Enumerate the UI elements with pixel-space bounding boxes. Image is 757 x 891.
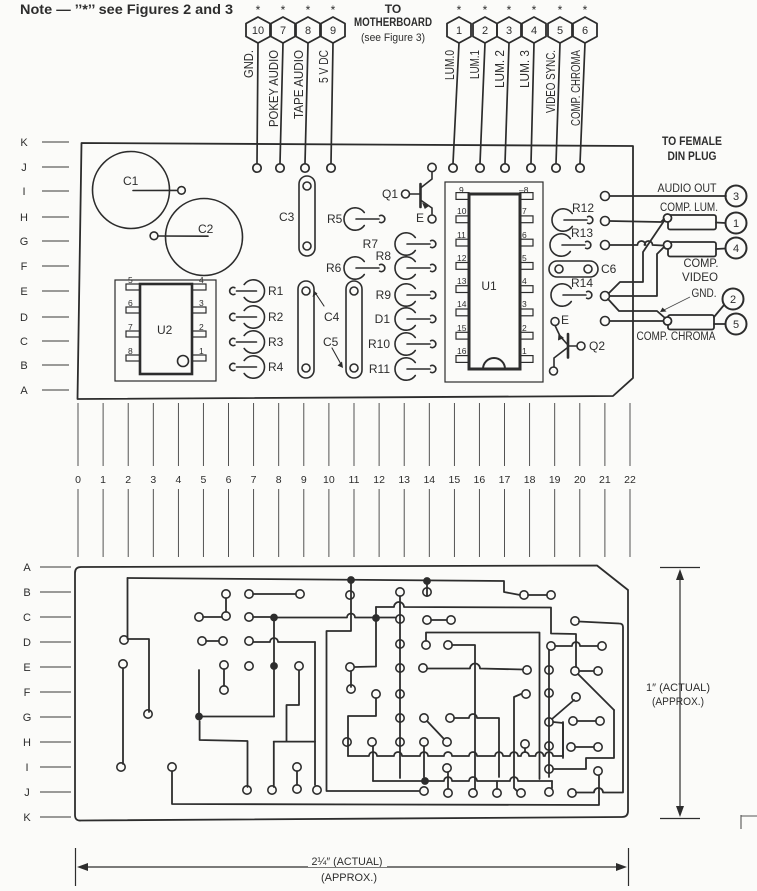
svg-text:R3: R3 [268, 335, 284, 349]
svg-text:9: 9 [459, 185, 464, 195]
svg-text:COMP. LUM.: COMP. LUM. [660, 202, 718, 214]
svg-text:H: H [23, 737, 31, 749]
svg-text:1: 1 [456, 25, 462, 37]
svg-text:B: B [20, 360, 27, 372]
svg-text:4: 4 [733, 243, 739, 255]
svg-text:K: K [23, 812, 31, 824]
svg-text:D1: D1 [375, 312, 391, 326]
svg-text:R13: R13 [571, 226, 593, 240]
svg-text:H: H [20, 212, 28, 224]
svg-text:8: 8 [128, 346, 133, 356]
svg-text:R2: R2 [268, 310, 284, 324]
svg-text:F: F [24, 687, 31, 699]
svg-text:17: 17 [499, 474, 511, 486]
svg-text:R5: R5 [327, 212, 343, 226]
svg-text:*: * [306, 3, 311, 17]
svg-text:7: 7 [251, 474, 257, 486]
svg-text:14: 14 [423, 474, 435, 486]
svg-text:U1: U1 [481, 279, 497, 293]
svg-text:10: 10 [457, 206, 467, 216]
svg-text:2: 2 [125, 474, 131, 486]
svg-text:MOTHERBOARD: MOTHERBOARD [354, 17, 432, 29]
svg-text:1: 1 [522, 346, 527, 356]
svg-text:5: 5 [733, 319, 739, 331]
svg-text:4: 4 [175, 474, 181, 486]
svg-text:GND.: GND. [242, 50, 256, 78]
svg-text:4: 4 [531, 25, 537, 37]
svg-text:*: * [483, 3, 488, 17]
svg-text:C1: C1 [123, 174, 139, 188]
svg-text:C2: C2 [198, 222, 214, 236]
svg-text:J: J [24, 787, 30, 799]
svg-text:1: 1 [100, 474, 106, 486]
svg-text:6: 6 [522, 230, 527, 240]
svg-text:16: 16 [457, 346, 467, 356]
svg-text:8: 8 [276, 474, 282, 486]
svg-text:14: 14 [457, 299, 467, 309]
svg-text:(APPROX.): (APPROX.) [652, 696, 704, 708]
svg-text:C4: C4 [324, 310, 340, 324]
svg-text:E: E [561, 313, 569, 327]
svg-text:3: 3 [733, 191, 739, 203]
svg-text:6: 6 [582, 25, 588, 37]
svg-text:R10: R10 [368, 337, 390, 351]
svg-text:12: 12 [373, 474, 385, 486]
svg-text:LUM. 2: LUM. 2 [493, 50, 507, 88]
svg-text:DIN PLUG: DIN PLUG [668, 149, 717, 163]
svg-text:I: I [22, 186, 25, 198]
svg-text:5 V DC: 5 V DC [317, 50, 331, 83]
svg-text:K: K [20, 137, 28, 149]
svg-text:POKEY AUDIO: POKEY AUDIO [267, 50, 281, 127]
svg-text:R14: R14 [571, 276, 593, 290]
svg-text:2¼″ (ACTUAL): 2¼″ (ACTUAL) [312, 856, 383, 868]
svg-text:(see Figure 3): (see Figure 3) [361, 32, 425, 44]
svg-text:5: 5 [557, 25, 563, 37]
svg-text:Q1: Q1 [382, 187, 398, 201]
svg-text:C: C [20, 336, 28, 348]
svg-text:LUM. 3: LUM. 3 [518, 50, 532, 88]
svg-text:J: J [21, 162, 27, 174]
svg-text:21: 21 [599, 474, 611, 486]
svg-text:R12: R12 [572, 201, 594, 215]
svg-text:2: 2 [730, 294, 736, 306]
svg-text:4: 4 [522, 276, 527, 286]
svg-text:7: 7 [522, 206, 527, 216]
svg-text:Note — ’’*’’ see Figures 2 and: Note — ’’*’’ see Figures 2 and 3 [20, 1, 233, 17]
svg-text:*: * [331, 3, 336, 17]
svg-text:*: * [532, 3, 537, 17]
svg-text:13: 13 [457, 276, 467, 286]
svg-text:COMP.: COMP. [684, 258, 719, 270]
svg-text:*: * [256, 3, 261, 17]
svg-text:7: 7 [128, 322, 133, 332]
svg-text:1″ (ACTUAL): 1″ (ACTUAL) [646, 682, 710, 694]
svg-text:8: 8 [305, 25, 311, 37]
svg-text:13: 13 [398, 474, 410, 486]
svg-text:VIDEO SYNC.: VIDEO SYNC. [544, 50, 558, 113]
svg-text:I: I [25, 762, 28, 774]
svg-text:16: 16 [474, 474, 486, 486]
svg-text:AUDIO OUT: AUDIO OUT [658, 183, 717, 195]
svg-text:A: A [23, 562, 31, 574]
svg-text:A: A [20, 385, 28, 397]
svg-text:R11: R11 [369, 362, 390, 376]
svg-text:G: G [20, 236, 29, 248]
svg-text:TO FEMALE: TO FEMALE [662, 134, 722, 148]
svg-text:E: E [23, 662, 30, 674]
svg-text:R9: R9 [376, 288, 392, 302]
svg-text:3: 3 [150, 474, 156, 486]
svg-text:2: 2 [482, 25, 488, 37]
svg-text:6: 6 [128, 298, 133, 308]
svg-text:C3: C3 [279, 210, 295, 224]
svg-text:TAPE AUDIO: TAPE AUDIO [292, 50, 306, 119]
svg-text:COMP. CHROMA: COMP. CHROMA [569, 49, 583, 126]
svg-text:2: 2 [199, 322, 204, 332]
svg-text:1: 1 [199, 346, 204, 356]
svg-text:6: 6 [226, 474, 232, 486]
svg-text:E: E [416, 211, 424, 225]
svg-text:C6: C6 [601, 262, 617, 276]
svg-text:TO: TO [385, 2, 401, 16]
svg-text:20: 20 [574, 474, 586, 486]
svg-text:11: 11 [457, 230, 466, 240]
svg-text:10: 10 [252, 25, 264, 37]
svg-text:*: * [558, 3, 563, 17]
svg-text:VIDEO: VIDEO [682, 272, 718, 284]
svg-text:(APPROX.): (APPROX.) [321, 872, 377, 884]
svg-text:R4: R4 [268, 360, 284, 374]
svg-text:5: 5 [522, 253, 527, 263]
svg-text:3: 3 [522, 299, 527, 309]
svg-text:B: B [23, 587, 30, 599]
svg-text:5: 5 [200, 474, 206, 486]
svg-text:22: 22 [624, 474, 636, 486]
svg-text:C5: C5 [323, 335, 339, 349]
svg-text:F: F [21, 261, 28, 273]
svg-text:COMP. CHROMA: COMP. CHROMA [637, 331, 716, 343]
svg-text:15: 15 [449, 474, 461, 486]
svg-text:R1: R1 [268, 284, 284, 298]
svg-text:10: 10 [323, 474, 335, 486]
svg-text:Q2: Q2 [589, 339, 605, 353]
svg-text:3: 3 [199, 298, 204, 308]
svg-text:–8: –8 [519, 185, 529, 195]
svg-text:2: 2 [522, 323, 527, 333]
svg-text:4: 4 [199, 275, 204, 285]
svg-text:3: 3 [506, 25, 512, 37]
svg-text:R8: R8 [376, 249, 392, 263]
svg-text:D: D [20, 312, 28, 324]
svg-text:U2: U2 [157, 323, 173, 337]
svg-text:LUM.1: LUM.1 [468, 50, 482, 79]
svg-text:LUM.0: LUM.0 [443, 50, 457, 80]
svg-text:7: 7 [280, 25, 286, 37]
svg-text:E: E [20, 286, 27, 298]
svg-text:18: 18 [524, 474, 536, 486]
svg-text:19: 19 [549, 474, 561, 486]
svg-text:*: * [507, 3, 512, 17]
svg-text:R6: R6 [326, 261, 342, 275]
svg-text:*: * [457, 3, 462, 17]
svg-text:C: C [23, 612, 31, 624]
svg-text:12: 12 [457, 253, 467, 263]
svg-text:9: 9 [301, 474, 307, 486]
svg-text:*: * [281, 3, 286, 17]
svg-text:0: 0 [75, 474, 81, 486]
svg-text:G: G [23, 712, 32, 724]
svg-text:GND.: GND. [692, 288, 717, 300]
svg-text:5: 5 [128, 275, 133, 285]
svg-text:11: 11 [349, 474, 360, 486]
svg-text:9: 9 [330, 25, 336, 37]
svg-text:1: 1 [733, 218, 739, 230]
svg-text:D: D [23, 637, 31, 649]
svg-text:*: * [583, 3, 588, 17]
svg-text:15: 15 [457, 323, 467, 333]
